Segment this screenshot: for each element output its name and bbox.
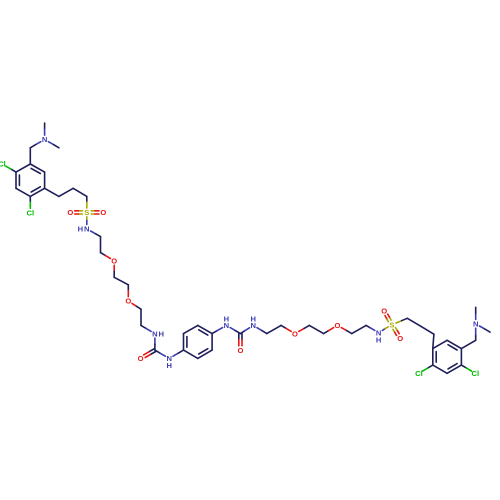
- S-N bond S1-NH1: [86, 217, 88, 225]
- atom N NH1: [78, 225, 90, 234]
- S=O bond S2-Os2a: [385, 314, 391, 322]
- ring1 edge R1T-R1NW: [16, 164, 30, 172]
- atom N Nu2: [166, 354, 171, 370]
- ring3 edge double R3SW-R3NW: [433, 349, 436, 366]
- C-Cl bond R3SE-Cl4: [461, 365, 471, 371]
- chain bond R1SE-Ca: [45, 188, 59, 196]
- O-C bond Oe2-C5L: [132, 303, 141, 309]
- N-methyl bond Nr-Me4: [480, 326, 491, 332]
- atom S S1: [84, 208, 89, 217]
- svg-text:H: H: [166, 361, 171, 370]
- ring2 edge R2B-R2SW: [184, 350, 198, 358]
- ring3 edge R3NE-R3SE: [460, 349, 462, 366]
- ring3 edge double R3SE-R3B: [447, 364, 461, 374]
- N-C bond Nu3-Cu2: [230, 328, 240, 334]
- chain bond Ca-Cb: [59, 188, 73, 196]
- S=O bond S2-Os2b: [393, 328, 399, 336]
- N-S bond N5-S2: [382, 327, 388, 331]
- atom O Oe1: [111, 257, 117, 266]
- chain bond C9-C10: [352, 325, 366, 333]
- atom O Oe3: [292, 329, 298, 338]
- svg-text:Cl: Cl: [415, 369, 423, 378]
- ring1 edge double R1NW-R1SW: [16, 172, 19, 188]
- svg-text:H: H: [78, 225, 83, 234]
- ring2 edge double R2T-R2NE: [198, 325, 212, 335]
- atom Cl Cl1: [0, 160, 6, 169]
- ring3 edge R3B-R3SW: [433, 365, 447, 373]
- svg-text:Cl: Cl: [0, 160, 6, 169]
- atom O Oe2: [125, 297, 131, 306]
- ring1 edge double R1B-R1SE: [30, 187, 44, 197]
- ring3 edge double R3T-R3NE: [447, 340, 461, 350]
- C-N bond Cu2-Nu4: [240, 328, 249, 334]
- chain bond C5R-C6R: [267, 325, 281, 333]
- svg-text:O: O: [138, 354, 144, 363]
- chain bond C5L-C6L: [140, 309, 142, 325]
- CH2-ring bond CB1-R1T: [29, 148, 31, 164]
- ring3 edge R3NW-R3T: [433, 340, 447, 348]
- svg-text:H: H: [250, 315, 255, 324]
- atom Cl Cl3: [415, 369, 423, 378]
- ring1 edge double R1NE-R1T: [30, 164, 44, 174]
- chain bond C12-C13: [421, 326, 434, 334]
- svg-text:O: O: [335, 321, 341, 330]
- ring2 edge R2NE-R2SE: [211, 334, 213, 351]
- svg-text:N: N: [84, 225, 89, 234]
- C-O bond C2-Oe1: [101, 253, 111, 259]
- O-C bond Oe4-C9: [341, 328, 352, 334]
- atom N Nu1: [152, 329, 164, 338]
- C-S bond Cc-S1: [86, 196, 88, 208]
- ring1 edge R1SW-R1B: [16, 188, 30, 196]
- svg-text:O: O: [381, 307, 387, 316]
- svg-text:H: H: [376, 335, 381, 344]
- atom N N5: [376, 328, 381, 344]
- N-C bond NH1-C1: [91, 231, 101, 237]
- svg-text:O: O: [100, 208, 106, 217]
- C=O bond Cu1-Ou1: [144, 349, 156, 358]
- svg-text:Cl: Cl: [27, 208, 35, 217]
- N-C bond Nu1-Cu1: [154, 338, 156, 350]
- ring2 edge R2NW-R2T: [184, 325, 198, 333]
- C-N bond C10-N5: [366, 325, 375, 330]
- atom O Os2b: [397, 334, 403, 343]
- svg-text:O: O: [125, 297, 131, 306]
- svg-text:Cl: Cl: [472, 369, 480, 378]
- chain bond C3-C4: [114, 277, 128, 285]
- svg-text:N: N: [152, 329, 157, 338]
- ring1 edge R1SE-R1NE: [44, 172, 46, 188]
- svg-text:O: O: [111, 257, 117, 266]
- svg-text:O: O: [67, 208, 73, 217]
- chain bond C7-C8: [309, 325, 323, 333]
- ring2 edge double R2SW-R2NW: [184, 334, 187, 351]
- svg-text:O: O: [292, 329, 298, 338]
- svg-text:N: N: [473, 320, 478, 329]
- S-C bond S2-C11: [396, 318, 407, 323]
- C-Cl bond R3SW-Cl3: [423, 365, 433, 371]
- svg-text:N: N: [42, 135, 47, 144]
- svg-text:S: S: [84, 208, 89, 217]
- C=O bond Cu2-Ou2: [239, 334, 242, 346]
- C-N bond C6L-Nu1: [141, 325, 151, 331]
- ring2 edge double R2SE-R2B: [198, 349, 212, 359]
- svg-text:O: O: [237, 346, 243, 355]
- atom O Ou2: [237, 346, 243, 355]
- S=O bond S1-OR1: [91, 211, 99, 214]
- ring-N bond R2NE-Nu3: [212, 328, 223, 334]
- chain bond C11-C12: [407, 318, 421, 326]
- atom Cl Cl4: [472, 369, 480, 378]
- N-methyl bond N1-Me2: [48, 142, 59, 148]
- C-Cl bond R1NW-Cl1: [6, 166, 16, 172]
- chain bond Cb-Cc: [73, 188, 87, 196]
- atom O Os2a: [381, 307, 387, 316]
- atom S S2: [389, 320, 394, 329]
- ring-CH2 bond R3NE-CB2: [461, 340, 475, 348]
- atom O OR1: [100, 208, 106, 217]
- svg-text:H: H: [224, 315, 229, 324]
- C-O bond C6R-Oe3: [281, 325, 291, 331]
- C-N bond Cu1-Nu2: [155, 350, 166, 356]
- atom O Ou1: [138, 354, 144, 363]
- atom O Oe4: [335, 321, 341, 330]
- CH2-N bond CB2-Nr: [475, 328, 477, 340]
- svg-text:S: S: [389, 320, 394, 329]
- atom N Nr: [473, 320, 478, 329]
- N-ring bond Nu2-R2SW: [173, 350, 184, 356]
- chain-ring bond C13-R3NW: [433, 334, 434, 348]
- O-C bond Oe1-C3: [113, 265, 115, 277]
- N-CH2 bond N1-CB1: [30, 142, 41, 148]
- C-O bond C4-Oe2: [127, 285, 129, 297]
- atom Cl Cl2: [27, 208, 35, 217]
- C-Cl bond R1B-Cl2: [29, 196, 31, 208]
- atom O OL1: [67, 208, 73, 217]
- N-C bond Nu4-C5R: [257, 328, 267, 334]
- svg-text:O: O: [397, 334, 403, 343]
- C-O bond C8-Oe4: [324, 328, 334, 334]
- svg-text:H: H: [159, 329, 164, 338]
- atom N N1: [42, 135, 47, 144]
- atom N Nu4: [250, 315, 255, 331]
- atom N Nu3: [224, 315, 229, 331]
- N-methyl bond Nr-Me3: [475, 307, 477, 319]
- chain bond C1-C2: [100, 237, 102, 253]
- methyl-N bond Me1-N1: [44, 123, 46, 135]
- O-C bond Oe3-C7: [299, 325, 310, 331]
- S=O bond S1-OL1: [75, 211, 83, 214]
